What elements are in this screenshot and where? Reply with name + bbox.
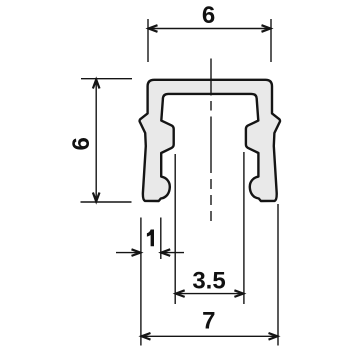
svg-text:3.5: 3.5 xyxy=(192,267,225,294)
arrowhead left xyxy=(149,25,158,32)
arrowhead pointing right xyxy=(132,249,141,256)
arrowhead right xyxy=(234,290,243,297)
extension line bottom xyxy=(81,201,132,203)
centerline (vertical dash-dot) xyxy=(210,59,212,222)
dimension line xyxy=(148,28,271,30)
svg-text:7: 7 xyxy=(202,308,215,335)
extension line right xyxy=(243,152,245,304)
svg-text:6: 6 xyxy=(68,137,95,150)
profile cross-section (channel clip body) xyxy=(140,80,280,201)
svg-text:6: 6 xyxy=(202,2,215,29)
arrowhead left xyxy=(142,333,151,340)
dimension line left tail xyxy=(116,252,141,254)
arrowhead pointing left xyxy=(161,249,170,256)
label 1 xyxy=(147,230,154,247)
arrowhead right xyxy=(262,25,271,32)
arrowhead down xyxy=(93,193,100,202)
extension line left xyxy=(147,19,149,62)
extension line top xyxy=(81,78,132,80)
extension line left xyxy=(174,154,176,304)
dimension line xyxy=(175,293,244,295)
dimension 6 (left height) xyxy=(81,79,133,202)
extension line right xyxy=(277,204,279,346)
dimension line right tail xyxy=(161,252,184,254)
extension line right xyxy=(160,218,162,260)
extension line right xyxy=(270,19,272,62)
extension line left (shared with 7) xyxy=(140,218,142,346)
dimension 7 (overall width) xyxy=(141,204,278,346)
arrowhead left xyxy=(176,290,185,297)
dimension line xyxy=(95,79,97,202)
arrowhead up xyxy=(93,80,100,89)
arrowhead right xyxy=(269,333,278,340)
dimension 1 (leg thickness) xyxy=(116,218,184,346)
dimension 3.5 (gap between barbs) xyxy=(175,152,244,304)
dimension line xyxy=(141,335,278,337)
dimension 6 (top width) xyxy=(148,19,271,62)
